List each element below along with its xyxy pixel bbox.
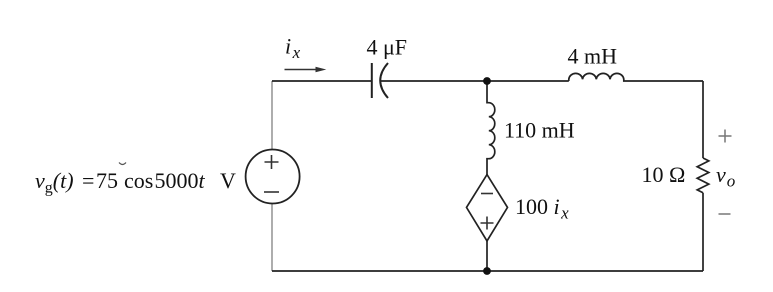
svg-text:ix: ix (285, 34, 301, 63)
svg-text:V: V (220, 168, 236, 193)
svg-text:=: = (82, 168, 94, 193)
svg-text:5000t: 5000t (155, 168, 206, 193)
svg-text:4 mH: 4 mH (568, 44, 618, 69)
svg-text:vo: vo (716, 162, 735, 191)
svg-text:75: 75 (96, 168, 118, 193)
svg-text:4 μF: 4 μF (367, 35, 408, 60)
svg-text:100 ix: 100 ix (515, 194, 569, 223)
svg-text:cos: cos (124, 168, 153, 193)
svg-text:10 Ω: 10 Ω (642, 162, 686, 187)
svg-text:vg(t): vg(t) (35, 168, 74, 197)
svg-text:110 mH: 110 mH (504, 118, 575, 143)
